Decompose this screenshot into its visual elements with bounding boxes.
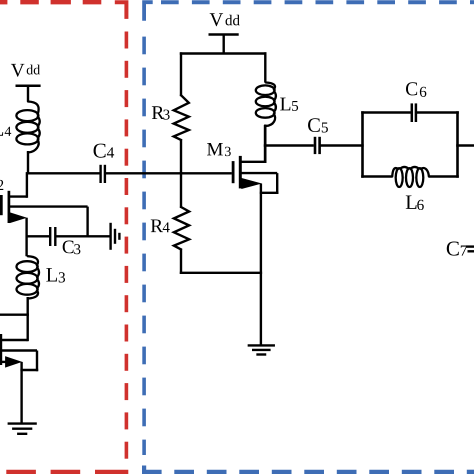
- wire node A to C4: [27, 172, 100, 174]
- wire C3 to bypass ground: [55, 235, 109, 237]
- wire M3 drain node to C5: [264, 144, 314, 146]
- transistor M2 (label 2, M cropped): [0, 172, 88, 256]
- wire C5 to tank: [320, 144, 364, 146]
- resistor R3: [152, 95, 189, 140]
- resistor R4: [151, 207, 189, 249]
- inductor L4: [0, 102, 40, 153]
- wire L3 to M1 drain: [27, 297, 29, 341]
- wire L4 bottom to node A: [27, 151, 29, 175]
- power Vdd (top supply): [209, 13, 240, 54]
- blue dashed stage boundary (middle block): [144, 2, 474, 472]
- capacitor C5: [308, 118, 328, 154]
- red dashed stage boundary (left block): [0, 2, 128, 472]
- LC tank frame wires: [361, 111, 459, 177]
- wire M2 source to C3: [27, 235, 50, 237]
- wire R4 to M3 source: [180, 272, 262, 274]
- inductor L3: [17, 256, 66, 298]
- wire R4 bottom: [180, 248, 182, 274]
- power Vdd (left supply): [11, 64, 41, 102]
- capacitor C3: [50, 227, 80, 254]
- capacitor C7 (cropped at right edge): [447, 242, 474, 256]
- capacitor C6: [406, 82, 426, 122]
- capacitor C4: [94, 144, 115, 183]
- wire R3 to gate node: [180, 139, 182, 175]
- wire branch exiting left at node B: [0, 314, 29, 316]
- wire gate node down to R4: [180, 172, 182, 208]
- transistor M1: [0, 334, 38, 424]
- wire C4 to M3 gate: [105, 172, 232, 174]
- inductor L6: [392, 167, 429, 210]
- wire rail down to R3: [180, 52, 182, 96]
- ground (M3 source): [248, 345, 275, 354]
- wire top supply rail: [180, 52, 267, 54]
- transistor M3: [207, 125, 278, 346]
- ground (M1 source): [8, 424, 37, 434]
- wire tank output to right edge: [456, 144, 474, 146]
- ground (C3 bypass, right-facing): [111, 223, 120, 250]
- inductor L5: [256, 52, 298, 163]
